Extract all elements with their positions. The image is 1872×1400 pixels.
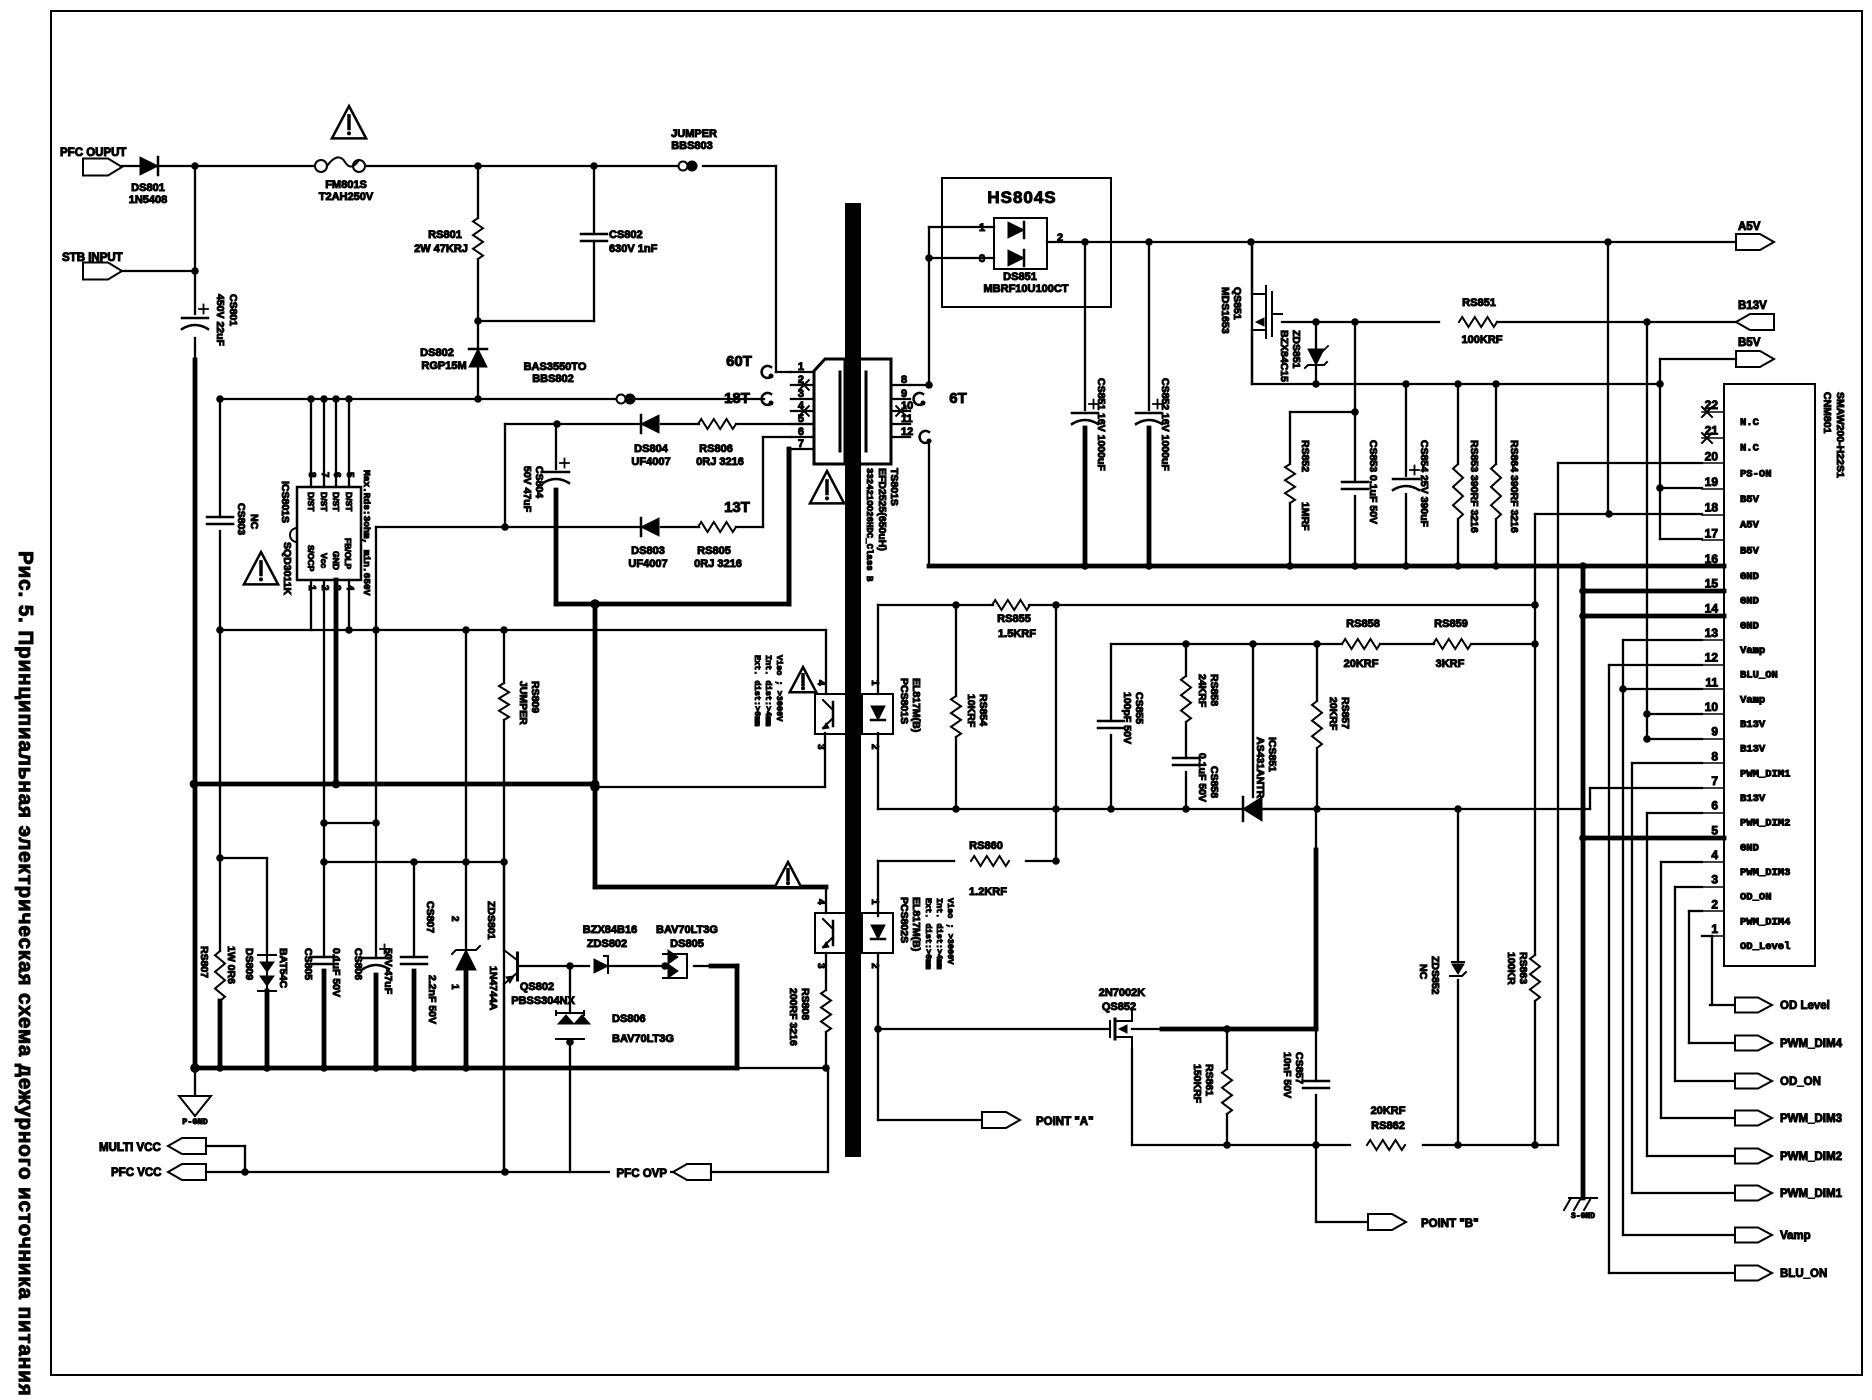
- svg-text:UF4007: UF4007: [628, 558, 667, 570]
- svg-text:CS851 16V 1000uF: CS851 16V 1000uF: [1095, 378, 1107, 471]
- svg-text:4: 4: [1711, 848, 1718, 862]
- svg-text:2W 47KRJ: 2W 47KRJ: [414, 243, 468, 255]
- svg-text:1.2KRF: 1.2KRF: [969, 886, 1007, 898]
- svg-text:9: 9: [901, 388, 907, 400]
- svg-text:PBSS304NX: PBSS304NX: [511, 995, 575, 1007]
- svg-text:1: 1: [979, 222, 985, 234]
- svg-text:6T: 6T: [949, 390, 967, 407]
- svg-text:B13V: B13V: [1738, 300, 1767, 312]
- svg-text:PWM_DIM3: PWM_DIM3: [1780, 1113, 1842, 1125]
- svg-text:Viso ; >3000V: Viso ; >3000V: [945, 898, 955, 965]
- svg-text:B13V: B13V: [1740, 719, 1766, 731]
- svg-text:S-GND: S-GND: [1571, 1212, 1595, 1221]
- svg-text:0.1uF 50V: 0.1uF 50V: [1196, 753, 1208, 802]
- svg-text:4: 4: [815, 680, 826, 686]
- svg-text:1: 1: [1711, 922, 1718, 936]
- svg-text:POINT "B": POINT "B": [1421, 1218, 1479, 1230]
- svg-text:21: 21: [1705, 424, 1719, 438]
- svg-text:B5V: B5V: [1740, 494, 1760, 506]
- svg-text:0RJ 3216: 0RJ 3216: [694, 558, 742, 570]
- svg-text:Vamp: Vamp: [1780, 1230, 1811, 1242]
- svg-text:JUMPER: JUMPER: [517, 681, 529, 725]
- svg-text:DS802: DS802: [420, 347, 454, 359]
- svg-text:RS855: RS855: [997, 613, 1031, 625]
- svg-text:RS858: RS858: [1208, 674, 1220, 706]
- svg-text:BAV70LT3G: BAV70LT3G: [612, 1033, 674, 1045]
- svg-text:EL817M(B): EL817M(B): [910, 678, 922, 732]
- svg-text:PCS802S: PCS802S: [898, 897, 910, 943]
- svg-text:CS807: CS807: [424, 901, 436, 933]
- svg-text:AS431ANTR: AS431ANTR: [1254, 737, 1266, 799]
- svg-text:1.5KRF: 1.5KRF: [998, 628, 1036, 640]
- svg-text:Ext. dist:>6mm: Ext. dist:>6mm: [752, 655, 762, 726]
- svg-text:8: 8: [1711, 749, 1718, 763]
- svg-text:D/ST: D/ST: [344, 492, 354, 512]
- svg-text:CS858: CS858: [1208, 766, 1220, 798]
- svg-text:ZDS801: ZDS801: [485, 901, 497, 940]
- svg-text:PWM_DIM2: PWM_DIM2: [1780, 1151, 1842, 1163]
- svg-text:Ext. dist:>6mm: Ext. dist:>6mm: [923, 898, 933, 969]
- svg-text:ICS801S: ICS801S: [279, 481, 291, 523]
- svg-text:Max.Rds:3ohm, min.650V: Max.Rds:3ohm, min.650V: [361, 470, 372, 596]
- svg-text:0RJ 3216: 0RJ 3216: [696, 456, 744, 468]
- svg-text:B5V: B5V: [1740, 545, 1760, 557]
- svg-text:50V 47uF: 50V 47uF: [382, 948, 394, 995]
- svg-text:PFC OUPUT: PFC OUPUT: [60, 147, 126, 159]
- svg-text:100KRF: 100KRF: [1462, 334, 1503, 346]
- svg-text:BLU_ON: BLU_ON: [1780, 1268, 1827, 1280]
- svg-text:A5V: A5V: [1738, 221, 1761, 233]
- svg-text:CS803: CS803: [235, 503, 247, 535]
- svg-text:DS805: DS805: [670, 938, 704, 950]
- svg-text:RS809: RS809: [529, 681, 541, 713]
- svg-text:50V 47uF: 50V 47uF: [521, 466, 533, 513]
- svg-text:100KR: 100KR: [1505, 952, 1517, 985]
- svg-text:B13V: B13V: [1740, 744, 1766, 756]
- svg-text:PWM_DIM4: PWM_DIM4: [1740, 916, 1790, 928]
- svg-text:RS852: RS852: [1299, 440, 1311, 472]
- svg-text:ZDS802: ZDS802: [587, 938, 627, 950]
- svg-text:20KRF: 20KRF: [1327, 697, 1339, 731]
- svg-text:RS854: RS854: [977, 694, 989, 726]
- svg-text:CS804: CS804: [533, 466, 545, 498]
- svg-text:EL817M(B): EL817M(B): [910, 897, 922, 951]
- svg-text:2.2nF 50V: 2.2nF 50V: [426, 975, 438, 1024]
- svg-text:6: 6: [798, 426, 804, 438]
- svg-text:8: 8: [306, 472, 317, 478]
- svg-text:GND: GND: [1740, 596, 1759, 608]
- svg-text:Viso ; >3000V: Viso ; >3000V: [774, 655, 784, 722]
- svg-text:ZDS851: ZDS851: [1290, 330, 1302, 369]
- svg-text:RS861: RS861: [1203, 1064, 1215, 1096]
- svg-text:20KRF: 20KRF: [1371, 1105, 1406, 1117]
- svg-text:D/ST: D/ST: [306, 492, 316, 512]
- svg-text:S/OCP: S/OCP: [306, 545, 316, 572]
- svg-text:CS806: CS806: [352, 948, 364, 980]
- svg-text:NC: NC: [248, 514, 260, 530]
- svg-text:EFD2525(650uH): EFD2525(650uH): [876, 468, 888, 551]
- svg-text:BAT54C: BAT54C: [277, 948, 289, 988]
- svg-text:BBS803: BBS803: [671, 140, 713, 152]
- svg-text:150KRF: 150KRF: [1191, 1064, 1203, 1104]
- svg-text:10KRF: 10KRF: [965, 694, 977, 728]
- svg-text:DS801: DS801: [131, 182, 165, 194]
- svg-text:22: 22: [1705, 398, 1719, 412]
- svg-text:TS801S: TS801S: [888, 468, 900, 506]
- svg-text:18: 18: [1705, 501, 1719, 515]
- svg-text:PWM_DIM4: PWM_DIM4: [1780, 1038, 1843, 1050]
- svg-text:3: 3: [815, 963, 826, 969]
- svg-text:BZX84B16: BZX84B16: [583, 924, 637, 936]
- svg-text:13: 13: [1705, 626, 1719, 640]
- svg-text:1: 1: [869, 680, 880, 686]
- svg-text:9: 9: [1711, 725, 1718, 739]
- svg-text:1MRF: 1MRF: [1299, 502, 1311, 531]
- svg-text:RS805: RS805: [697, 545, 731, 557]
- svg-text:PWM_DIM1: PWM_DIM1: [1780, 1188, 1843, 1200]
- svg-text:Int. dist:>4mm: Int. dist:>4mm: [934, 898, 944, 969]
- svg-text:NC: NC: [1417, 964, 1429, 980]
- svg-text:POINT "A": POINT "A": [1036, 1116, 1094, 1128]
- svg-text:3KRF: 3KRF: [1436, 658, 1465, 670]
- svg-text:14: 14: [1705, 601, 1719, 615]
- svg-text:HS804S: HS804S: [987, 188, 1056, 207]
- svg-text:D/ST: D/ST: [331, 492, 341, 512]
- svg-text:DS803: DS803: [631, 545, 665, 557]
- svg-text:MDS1653: MDS1653: [1219, 287, 1231, 334]
- svg-text:8: 8: [901, 374, 907, 386]
- svg-text:ICS851: ICS851: [1266, 737, 1278, 772]
- svg-text:RS807: RS807: [198, 946, 210, 978]
- svg-text:630V 1nF: 630V 1nF: [609, 243, 658, 255]
- svg-text:20KRF: 20KRF: [1344, 658, 1379, 670]
- svg-text:11: 11: [901, 413, 913, 425]
- svg-text:10: 10: [1705, 700, 1719, 714]
- svg-text:5: 5: [1711, 823, 1718, 837]
- svg-text:PCS801S: PCS801S: [898, 678, 910, 724]
- svg-text:GND: GND: [1740, 842, 1759, 854]
- svg-text:CS801: CS801: [227, 294, 239, 326]
- svg-text:60T: 60T: [726, 353, 752, 370]
- svg-text:PWM_DIM3: PWM_DIM3: [1740, 867, 1790, 879]
- svg-text:10nF 50V: 10nF 50V: [1281, 1052, 1293, 1098]
- svg-text:DS809: DS809: [243, 948, 255, 980]
- svg-text:DS806: DS806: [612, 1013, 646, 1025]
- svg-text:P-GND: P-GND: [182, 1117, 208, 1127]
- svg-text:4: 4: [815, 899, 826, 905]
- svg-text:Int. dist:>4mm: Int. dist:>4mm: [763, 655, 773, 726]
- svg-text:3: 3: [815, 744, 826, 750]
- svg-text:N.C: N.C: [1740, 443, 1760, 455]
- svg-text:FB/OLP: FB/OLP: [343, 538, 353, 569]
- svg-text:Vamp: Vamp: [1740, 645, 1765, 657]
- svg-text:3: 3: [979, 253, 985, 265]
- svg-text:7: 7: [798, 438, 804, 450]
- svg-text:RS857: RS857: [1339, 697, 1351, 729]
- svg-text:DS804: DS804: [634, 443, 669, 455]
- svg-text:ZDS852: ZDS852: [1429, 956, 1441, 995]
- svg-text:PFC VCC: PFC VCC: [111, 1167, 161, 1179]
- svg-text:CS852 16V 1000uF: CS852 16V 1000uF: [1159, 378, 1171, 471]
- svg-text:T2AH250V: T2AH250V: [319, 191, 374, 203]
- svg-text:RS806: RS806: [699, 443, 733, 455]
- svg-text:RS859: RS859: [1434, 618, 1468, 630]
- svg-text:PWM_DIM1: PWM_DIM1: [1740, 768, 1790, 780]
- svg-text:RS858: RS858: [1346, 618, 1380, 630]
- svg-text:BLU_ON: BLU_ON: [1740, 670, 1778, 682]
- svg-text:CS854 25V 390uF: CS854 25V 390uF: [1418, 440, 1430, 528]
- svg-text:RS863: RS863: [1517, 952, 1529, 984]
- svg-text:11: 11: [1705, 675, 1718, 689]
- svg-text:7: 7: [319, 472, 330, 478]
- svg-text:GND: GND: [1740, 620, 1759, 632]
- svg-text:18T: 18T: [724, 390, 750, 407]
- svg-text:RGP15M: RGP15M: [421, 360, 466, 372]
- svg-text:2: 2: [319, 585, 330, 591]
- svg-text:1: 1: [306, 585, 317, 591]
- svg-text:RS864 390RF 3216: RS864 390RF 3216: [1508, 440, 1520, 533]
- svg-text:B13V: B13V: [1740, 793, 1766, 805]
- svg-text:16: 16: [1705, 552, 1719, 566]
- svg-text:CS857: CS857: [1293, 1052, 1305, 1084]
- svg-text:RS851: RS851: [1462, 297, 1496, 309]
- svg-text:450V 22uF: 450V 22uF: [214, 294, 226, 347]
- svg-text:1: 1: [798, 361, 804, 373]
- svg-text:B5V: B5V: [1738, 337, 1761, 349]
- svg-text:Vcc: Vcc: [319, 553, 329, 568]
- svg-text:BAV70LT3G: BAV70LT3G: [656, 924, 718, 936]
- svg-text:17: 17: [1705, 526, 1719, 540]
- svg-text:MULTI VCC: MULTI VCC: [99, 1142, 161, 1154]
- svg-text:CS855: CS855: [1133, 692, 1145, 724]
- svg-text:GND: GND: [331, 551, 341, 570]
- svg-text:OD_Level: OD_Level: [1740, 941, 1790, 953]
- svg-text:RS853 390RF 3216: RS853 390RF 3216: [1468, 440, 1480, 533]
- svg-text:OD_ON: OD_ON: [1740, 892, 1772, 904]
- svg-text:1W 0R6: 1W 0R6: [225, 946, 237, 984]
- svg-text:Рис. 5. Принципиальная электри: Рис. 5. Принципиальная электрическая схе…: [14, 551, 37, 1397]
- svg-text:PS-ON: PS-ON: [1740, 468, 1772, 480]
- svg-text:100pF 50V: 100pF 50V: [1121, 692, 1133, 744]
- svg-text:0.1uF 50V: 0.1uF 50V: [330, 948, 342, 997]
- svg-text:6: 6: [1711, 799, 1718, 813]
- svg-text:RS860: RS860: [969, 840, 1003, 852]
- svg-text:A5V: A5V: [1740, 520, 1760, 532]
- svg-text:RS862: RS862: [1371, 1120, 1405, 1132]
- svg-text:JUMPER: JUMPER: [671, 128, 717, 140]
- svg-text:2N7002K: 2N7002K: [1099, 987, 1146, 999]
- svg-text:CS805: CS805: [302, 948, 314, 980]
- svg-text:BBS802: BBS802: [532, 373, 574, 385]
- svg-text:N.C: N.C: [1740, 417, 1760, 429]
- svg-text:RS808: RS808: [799, 988, 811, 1020]
- svg-text:QS802: QS802: [520, 981, 554, 993]
- svg-text:DS851: DS851: [1003, 271, 1037, 283]
- svg-text:19: 19: [1705, 475, 1719, 489]
- svg-text:12: 12: [1705, 651, 1719, 665]
- svg-text:5: 5: [344, 472, 355, 478]
- svg-text:PWM_DIM2: PWM_DIM2: [1740, 818, 1790, 830]
- svg-text:12: 12: [901, 426, 913, 438]
- svg-text:QS852: QS852: [1102, 1001, 1136, 1013]
- svg-text:3: 3: [1711, 873, 1718, 887]
- svg-text:FM801S: FM801S: [325, 179, 367, 191]
- svg-text:2: 2: [449, 916, 460, 922]
- svg-text:UF4007: UF4007: [631, 456, 670, 468]
- svg-text:332421OO26HDC_Class B: 332421OO26HDC_Class B: [864, 468, 874, 582]
- svg-text:SQD3011K: SQD3011K: [281, 542, 293, 596]
- svg-text:BAS3550TO: BAS3550TO: [524, 361, 587, 373]
- svg-text:CS802: CS802: [609, 229, 643, 241]
- svg-text:2: 2: [1711, 897, 1718, 911]
- svg-text:15: 15: [1705, 577, 1719, 591]
- svg-text:CNM801: CNM801: [1821, 392, 1833, 434]
- svg-text:7: 7: [1711, 774, 1718, 788]
- svg-text:OD_ON: OD_ON: [1780, 1076, 1821, 1088]
- svg-text:6: 6: [331, 472, 342, 478]
- svg-text:MBRF10U100CT: MBRF10U100CT: [984, 283, 1069, 295]
- svg-text:PFC OVP: PFC OVP: [617, 1168, 668, 1180]
- svg-text:CS853 0.1uF 50V: CS853 0.1uF 50V: [1367, 440, 1379, 524]
- svg-text:RS801: RS801: [428, 229, 462, 241]
- svg-text:Vamp: Vamp: [1740, 694, 1765, 706]
- svg-text:20: 20: [1705, 449, 1719, 463]
- svg-text:OD Level: OD Level: [1780, 1000, 1830, 1012]
- svg-text:BZX84C15: BZX84C15: [1278, 330, 1290, 382]
- svg-text:GND: GND: [1740, 571, 1759, 583]
- svg-text:1: 1: [449, 984, 460, 990]
- svg-text:1N4744A: 1N4744A: [487, 966, 499, 1011]
- svg-text:QS851: QS851: [1231, 287, 1243, 320]
- svg-text:3: 3: [331, 585, 342, 591]
- svg-text:1: 1: [869, 899, 880, 905]
- svg-text:24KRF: 24KRF: [1196, 674, 1208, 708]
- svg-text:1N5408: 1N5408: [129, 194, 168, 206]
- svg-text:4: 4: [344, 585, 355, 591]
- svg-text:13T: 13T: [724, 499, 750, 516]
- svg-text:SMAW200-H22S1: SMAW200-H22S1: [1834, 392, 1846, 478]
- svg-text:D/ST: D/ST: [319, 492, 329, 512]
- svg-text:200RF 3216: 200RF 3216: [787, 988, 799, 1046]
